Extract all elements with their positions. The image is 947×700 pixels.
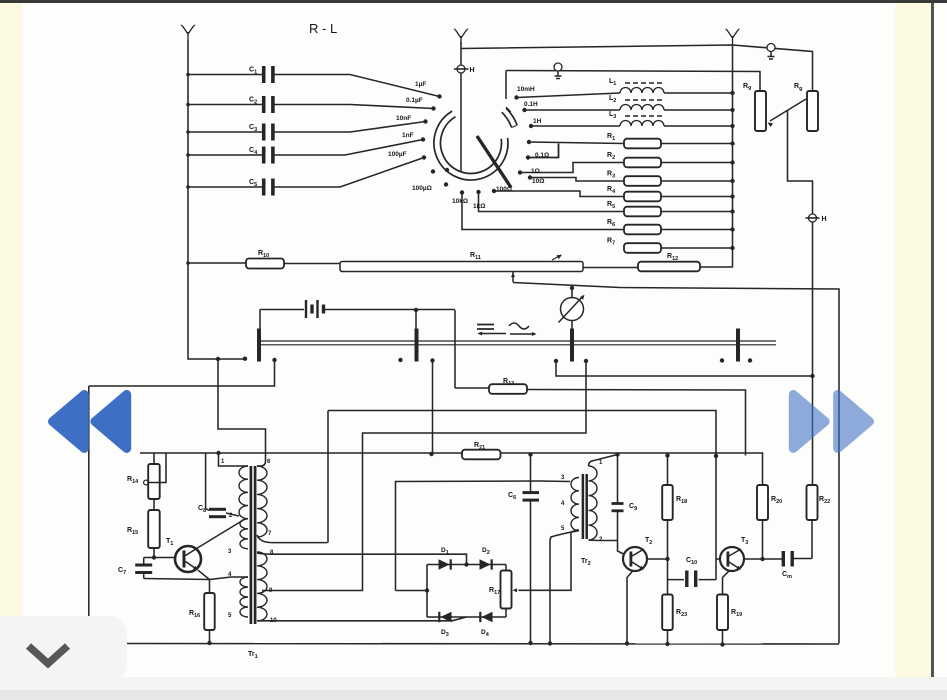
resistor R2 [528, 144, 559, 158]
chevron button panel [0, 616, 127, 681]
chevron icon [29, 646, 68, 664]
transistor T2 [623, 547, 647, 571]
svg-text:1nF: 1nF [402, 132, 414, 139]
svg-text:1kΩ: 1kΩ [473, 203, 485, 210]
Tr1 winding 4-5 [231, 576, 248, 578]
svg-text:0.1H: 0.1H [524, 101, 538, 108]
Tr1 winding 2-3 [240, 519, 248, 549]
potentiometer R17 [505, 565, 507, 571]
transistor T1 [154, 557, 175, 559]
svg-text:0.1Ω: 0.1Ω [535, 152, 549, 159]
resistor R1 [529, 142, 624, 144]
wire: tap1 to node [589, 455, 618, 467]
Tr1 primary winding 1-2 [219, 454, 249, 467]
resistor R16 [209, 580, 211, 594]
svg-text:1H: 1H [533, 118, 542, 125]
rotary switch arc [434, 111, 508, 180]
wire: link to R9 [506, 71, 760, 92]
bottom rail [89, 643, 839, 646]
wire: antenna2 stem into switch [460, 42, 462, 171]
capacitor C7 [144, 558, 154, 564]
capacitor C8 [205, 454, 207, 509]
bottom gray band [0, 690, 947, 700]
wire: T1 emitter to R16 [198, 570, 210, 579]
wire: pole4 contact [556, 361, 813, 376]
resistor R10 [188, 262, 246, 264]
inductor L3 [529, 124, 533, 128]
diode D1 [439, 559, 450, 569]
wire: T1 collector to Tr1 tap2 [199, 519, 245, 547]
switch contact dots [527, 140, 531, 144]
jack H (right) [809, 214, 817, 222]
meter [571, 288, 573, 298]
wire: right vertical to R22 [812, 222, 814, 485]
antenna input 3 [726, 29, 740, 44]
diode D3 [440, 612, 451, 622]
transformer Tr2 core [582, 474, 585, 539]
svg-text:100µF: 100µF [388, 151, 407, 158]
selector pole 3 [570, 329, 574, 362]
wire: tap5 down [550, 531, 579, 644]
svg-text:10Ω: 10Ω [532, 178, 544, 185]
svg-text:R - L: R - L [309, 21, 337, 36]
Tr2 primary 3-5 [571, 478, 579, 531]
svg-text:1µF: 1µF [415, 81, 426, 88]
resistor R21 [462, 450, 501, 460]
svg-text:1Ω: 1Ω [531, 168, 540, 175]
capacitor C2 [188, 104, 262, 106]
capacitor C5 [188, 186, 262, 188]
Tr2 secondary 1-2 [589, 466, 598, 540]
resistor R7 [462, 193, 624, 230]
svg-text:10nF: 10nF [396, 115, 411, 122]
right cream strip [895, 3, 931, 677]
resistor R14 [153, 453, 155, 464]
ac/dc symbols [477, 325, 494, 330]
resistor R20 [757, 485, 768, 520]
capacitor C9 [617, 455, 619, 504]
wire: T3 emitter to R19 [723, 570, 731, 595]
resistor R19 [717, 595, 728, 631]
rotary switch outer contact segment [502, 112, 512, 127]
svg-text:0.1µF: 0.1µF [406, 97, 423, 104]
selector pole 2 [415, 329, 419, 362]
Tr1 secondary winding 6-7 [257, 466, 267, 537]
selector pole 4 [736, 329, 740, 362]
resistor R18 [667, 456, 669, 486]
right dark separator line [931, 3, 934, 679]
wire: left capacitor bus [188, 40, 245, 359]
wire: tap10 to bridge bottom [257, 617, 467, 621]
resistor R22 [807, 485, 818, 520]
diode bridge frame [427, 565, 506, 618]
inductor L2 [522, 108, 526, 112]
battery [260, 309, 304, 311]
resistor R4 [530, 178, 624, 182]
selector bus lines [259, 340, 776, 342]
inductor L1 [514, 95, 518, 99]
resistor R6 [479, 192, 625, 212]
resistor R13 [455, 387, 489, 389]
wire: tap8 to diode bridge [257, 553, 467, 565]
capacitor C6 [530, 455, 532, 493]
wiper tap of R11 [512, 272, 514, 282]
resistor R23 [662, 595, 673, 631]
wire: top link to Rg [461, 45, 813, 91]
svg-text:100Ω: 100Ω [496, 186, 512, 193]
wire: long line tap7 to T3 [328, 411, 716, 580]
antenna input 1 [181, 25, 195, 40]
capacitor Cm [782, 551, 785, 567]
wire: pole2 contact down [432, 361, 434, 455]
svg-text:100µΩ: 100µΩ [412, 185, 432, 192]
transformer Tr1 core [250, 466, 253, 624]
Tr1 secondary winding 8-10 [257, 552, 267, 621]
svg-text:H: H [470, 67, 475, 74]
wire: right resistor bus [732, 44, 734, 268]
wire: pole3 contact to transformer tap9 [262, 361, 586, 591]
rotary switch wiper [477, 136, 511, 188]
wire: T2 collector [647, 558, 668, 560]
top dark bar [0, 0, 947, 3]
capacitor C1 [188, 74, 262, 76]
svg-text:10mH: 10mH [517, 86, 535, 93]
bottom light band [0, 677, 947, 690]
wire: pole1 to left rail [89, 360, 275, 386]
capacitor C4 [188, 154, 262, 156]
wire: bias rail (R21 line) [140, 453, 763, 485]
wire: tap7 to T3 base line [257, 411, 328, 543]
left cream strip [0, 3, 22, 677]
diode D2 [480, 559, 491, 569]
antenna input 2 [454, 29, 468, 44]
wire: T2 emitter [627, 571, 633, 644]
wire: bridge left feed to Tr2 tap3 [396, 590, 428, 592]
capacitor C3 [188, 131, 262, 133]
nav arrow right (double triangle) [793, 395, 825, 449]
nav arrow left (double triangle) [53, 395, 85, 449]
transistor T3 [720, 547, 744, 571]
capacitor C10 [668, 579, 685, 581]
wire: T3 collector [744, 558, 782, 560]
svg-text:10kΩ: 10kΩ [452, 198, 468, 205]
resistor R15 [153, 499, 155, 510]
resistor Rg [807, 91, 818, 131]
trimmer tap on R14 [144, 480, 149, 485]
resistor R9 [755, 91, 766, 131]
wire: winding6 feed [218, 359, 266, 466]
resistor R3 [520, 163, 624, 173]
diode D4 [481, 612, 492, 622]
resistor R5 [494, 191, 624, 197]
potentiometer wiper arrow R9-Rg [770, 99, 806, 121]
selector pole 1 [257, 329, 261, 362]
wire: wiper line to right rail [513, 283, 839, 644]
jack H (left) [457, 65, 465, 73]
jack terminal x (right) [767, 44, 775, 52]
wire: wiper down to H jack [788, 111, 813, 215]
jack terminal x (middle) [554, 63, 562, 71]
resistor R12 [583, 267, 638, 269]
potentiometer R11 [284, 263, 340, 265]
wire: tap2 to T2 base [589, 539, 618, 542]
wire: emitter line [144, 577, 231, 580]
left rail [88, 386, 90, 644]
svg-text:H: H [822, 216, 827, 223]
